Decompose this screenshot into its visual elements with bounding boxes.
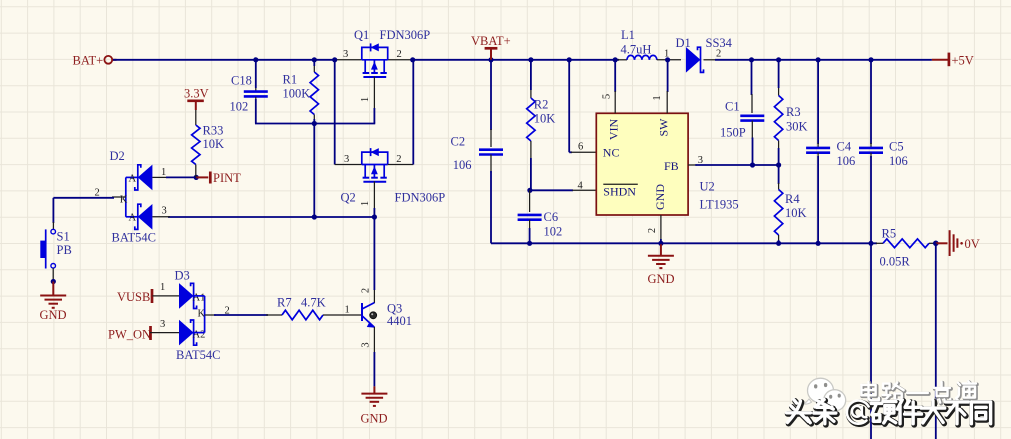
svg-text:10K: 10K (534, 111, 556, 125)
svg-text:SW: SW (657, 118, 671, 137)
svg-text:S1: S1 (57, 229, 70, 243)
svg-text:3: 3 (344, 154, 349, 165)
svg-text:0V: 0V (965, 237, 980, 251)
svg-text:3: 3 (343, 49, 348, 60)
svg-text:1: 1 (360, 201, 371, 206)
svg-text:R33: R33 (203, 123, 224, 137)
svg-text:C4: C4 (837, 139, 852, 153)
svg-text:102: 102 (544, 224, 563, 238)
svg-text:C2: C2 (451, 134, 466, 148)
svg-text:FB: FB (664, 159, 679, 173)
svg-text:10K: 10K (203, 137, 225, 151)
svg-text:106: 106 (453, 158, 472, 172)
svg-text:Q1: Q1 (354, 28, 369, 42)
svg-text:BAT54C: BAT54C (176, 348, 220, 362)
svg-text:100K: 100K (283, 87, 311, 101)
svg-text:4: 4 (578, 181, 584, 192)
svg-text:C6: C6 (544, 210, 559, 224)
svg-text:2: 2 (716, 49, 721, 60)
svg-text:2: 2 (361, 288, 372, 293)
svg-text:GND: GND (653, 184, 667, 210)
svg-text:C1: C1 (725, 99, 740, 113)
svg-text:4401: 4401 (387, 314, 412, 328)
svg-text:L1: L1 (621, 28, 635, 42)
svg-text:1: 1 (664, 49, 669, 60)
svg-text:106: 106 (837, 154, 856, 168)
svg-text:VBAT+: VBAT+ (471, 34, 511, 48)
svg-text:GND: GND (648, 272, 675, 286)
svg-text:A1: A1 (193, 293, 206, 304)
svg-text:10K: 10K (785, 206, 807, 220)
svg-text:+5V: +5V (952, 53, 974, 67)
svg-text:2: 2 (396, 154, 401, 165)
svg-text:R3: R3 (786, 105, 801, 119)
svg-text:2: 2 (647, 228, 658, 233)
svg-text:1: 1 (652, 95, 663, 100)
svg-text:3: 3 (162, 206, 167, 217)
svg-text:106: 106 (889, 154, 908, 168)
svg-text:1: 1 (345, 305, 350, 316)
svg-text:A: A (129, 213, 137, 224)
svg-text:1: 1 (160, 282, 165, 293)
svg-text:BAT54C: BAT54C (112, 231, 156, 245)
svg-text:BAT+: BAT+ (73, 54, 104, 68)
svg-text:2: 2 (95, 188, 100, 199)
svg-text:NC: NC (603, 146, 620, 160)
svg-text:Q2: Q2 (341, 190, 356, 204)
svg-text:4.7K: 4.7K (301, 296, 326, 310)
svg-text:3: 3 (361, 342, 372, 347)
svg-text:6: 6 (578, 142, 583, 153)
svg-text:GND: GND (361, 412, 388, 426)
svg-text:0.05R: 0.05R (880, 254, 911, 268)
svg-text:3: 3 (160, 319, 165, 330)
svg-text:A2: A2 (193, 329, 206, 340)
svg-text:U2: U2 (700, 179, 715, 193)
svg-text:30K: 30K (786, 119, 808, 133)
svg-text:D2: D2 (110, 149, 125, 163)
svg-text:3: 3 (698, 155, 703, 166)
svg-text:5: 5 (602, 94, 613, 99)
svg-text:R7: R7 (277, 296, 292, 310)
svg-text:GND: GND (40, 308, 67, 322)
svg-text:FDN306P: FDN306P (380, 28, 431, 42)
svg-text:LT1935: LT1935 (700, 197, 739, 211)
svg-text:FDN306P: FDN306P (395, 190, 446, 204)
svg-text:PW_ON: PW_ON (108, 328, 151, 342)
svg-text:SHDN: SHDN (603, 185, 636, 199)
svg-text:R4: R4 (785, 192, 800, 206)
svg-text:3.3V: 3.3V (184, 86, 209, 100)
svg-text:150P: 150P (720, 125, 746, 139)
svg-text:1: 1 (161, 167, 166, 178)
svg-text:VUSB: VUSB (117, 290, 150, 304)
svg-text:A: A (129, 173, 137, 184)
svg-text:R2: R2 (534, 97, 549, 111)
svg-text:R5: R5 (882, 226, 897, 240)
svg-text:D3: D3 (175, 268, 190, 282)
svg-text:K: K (120, 195, 128, 206)
svg-text:PINT: PINT (213, 171, 241, 185)
svg-text:2: 2 (397, 49, 402, 60)
svg-text:PB: PB (57, 243, 72, 257)
svg-text:102: 102 (230, 100, 249, 114)
svg-text:VIN: VIN (607, 119, 621, 141)
svg-text:4.7uH: 4.7uH (621, 42, 652, 56)
svg-text:C18: C18 (231, 74, 252, 88)
svg-text:1: 1 (360, 97, 371, 102)
svg-text:D1: D1 (676, 36, 691, 50)
svg-text:R1: R1 (283, 73, 298, 87)
svg-text:C5: C5 (889, 139, 904, 153)
